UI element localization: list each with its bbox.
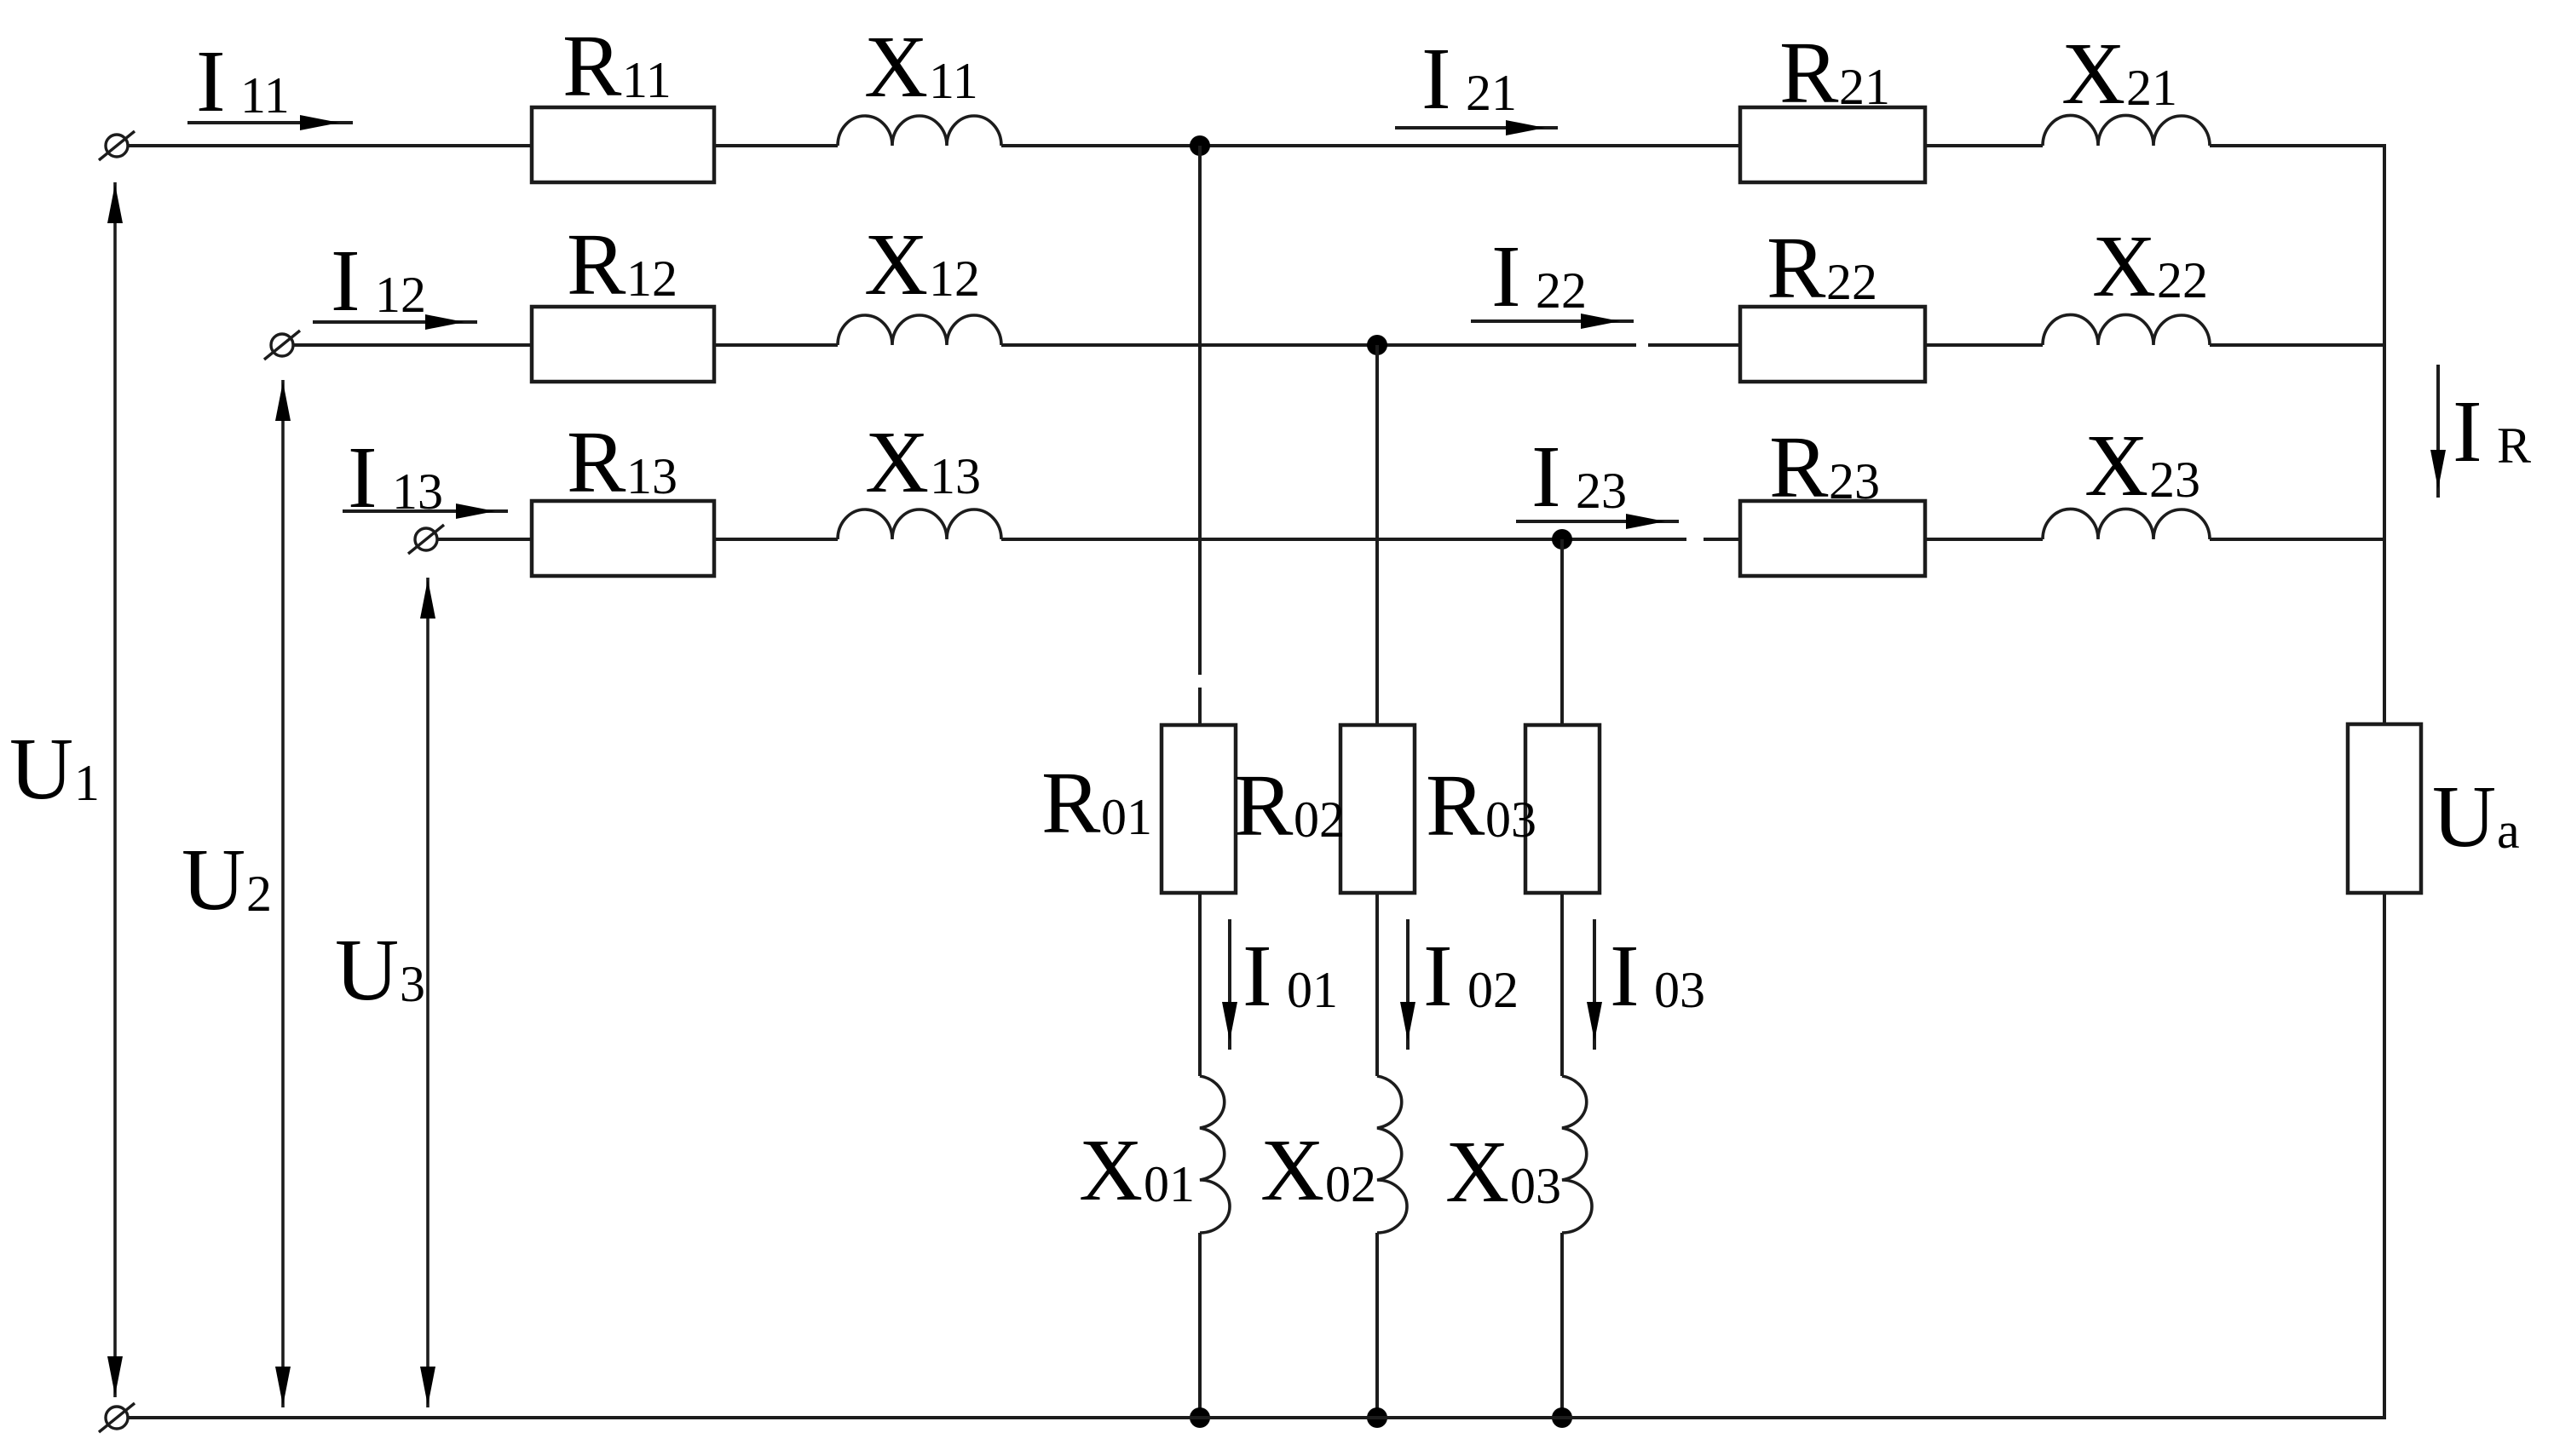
label I02 [1423, 927, 1519, 1025]
current arrow I21 [1395, 120, 1558, 135]
svg-text:3: 3 [400, 956, 425, 1012]
junction node branch1-bottom rail [1190, 1407, 1210, 1428]
svg-text:X: X [864, 18, 928, 116]
svg-text:X: X [2061, 25, 2125, 123]
current arrow I23 [1516, 514, 1679, 529]
wire row1 mid [714, 144, 838, 147]
junction node row1-branch1 [1190, 135, 1210, 156]
inductor X13 [838, 509, 1001, 539]
resistor R13 [532, 501, 714, 576]
label X01 [1079, 1121, 1195, 1219]
inductor X01 [1200, 1076, 1230, 1233]
svg-text:X: X [1445, 1123, 1509, 1221]
svg-text:I: I [1491, 227, 1521, 325]
label Ua [2432, 768, 2520, 866]
label I11 [196, 32, 290, 130]
svg-text:R: R [1234, 757, 1294, 855]
svg-text:21: 21 [1466, 65, 1517, 121]
svg-text:23: 23 [2149, 452, 2200, 508]
label I12 [331, 232, 426, 330]
label X02 [1260, 1121, 1376, 1219]
svg-text:03: 03 [1654, 962, 1705, 1018]
wire branch1 vertical lower [1198, 1233, 1202, 1418]
wire row1 right [1001, 144, 1740, 147]
wire row3 to coil X23 [1925, 538, 2043, 541]
svg-text:11: 11 [929, 53, 978, 109]
svg-text:I: I [1531, 428, 1561, 526]
label I21 [1421, 30, 1517, 128]
wire row3 left [437, 538, 532, 541]
svg-text:11: 11 [240, 67, 290, 124]
current arrow I01 [1222, 919, 1237, 1050]
wire right rail lower [2383, 893, 2386, 1419]
svg-text:02: 02 [1294, 791, 1345, 848]
svg-text:03: 03 [1485, 791, 1536, 848]
label I01 [1242, 927, 1338, 1025]
wire branch1 vertical upper [1198, 146, 1202, 725]
svg-text:R: R [567, 413, 626, 511]
terminal T2 (phase 2 input) [264, 331, 300, 360]
resistor R12 [532, 307, 714, 382]
wire row3 to right rail [2210, 538, 2386, 541]
label X22 [2092, 217, 2208, 315]
wire row2 left [293, 343, 532, 347]
label R03 [1426, 757, 1536, 855]
wire row2 to coil X22 [1925, 343, 2043, 347]
label X21 [2061, 25, 2177, 123]
wire row2 mid [714, 343, 838, 347]
resistor load Ua [2348, 724, 2421, 893]
svg-text:11: 11 [622, 52, 672, 108]
inductor X23 [2043, 509, 2210, 539]
wire right rail upper [2383, 144, 2386, 724]
svg-text:X: X [1079, 1121, 1143, 1219]
svg-text:12: 12 [375, 267, 426, 323]
resistor R21 [1740, 107, 1925, 182]
svg-text:23: 23 [1576, 463, 1627, 519]
current arrow I12 [313, 314, 477, 330]
svg-text:13: 13 [392, 463, 443, 520]
svg-text:R: R [1769, 418, 1829, 516]
svg-text:I: I [331, 232, 360, 330]
inductor X22 [2043, 314, 2210, 345]
wire branch2 below R02 [1375, 893, 1379, 1076]
svg-text:13: 13 [626, 448, 677, 504]
terminal bottom (common return) [99, 1403, 135, 1432]
current arrow I22 [1471, 314, 1634, 329]
svg-text:13: 13 [930, 448, 981, 504]
svg-text:X: X [865, 413, 929, 511]
junction node branch2-bottom rail [1367, 1407, 1387, 1428]
voltage arrow U3 (double-headed measure line) [420, 578, 435, 1407]
svg-text:22: 22 [2157, 252, 2208, 308]
label R02 [1234, 757, 1345, 855]
svg-text:I: I [1610, 927, 1640, 1025]
svg-text:X: X [864, 216, 928, 314]
svg-text:X: X [1260, 1121, 1324, 1219]
svg-text:I: I [348, 429, 378, 527]
label R12 [567, 216, 677, 314]
svg-text:02: 02 [1325, 1156, 1376, 1212]
resistor R01 [1162, 725, 1236, 893]
svg-text:R: R [2497, 417, 2531, 474]
svg-text:X: X [2092, 217, 2156, 315]
svg-text:U: U [335, 921, 399, 1019]
wire branch3 vertical upper [1560, 539, 1564, 725]
wire branch2 vertical lower [1375, 1233, 1379, 1418]
label R21 [1779, 24, 1890, 122]
label X12 [864, 216, 980, 314]
junction node row2-branch2 [1367, 335, 1387, 355]
svg-text:21: 21 [2126, 60, 2177, 116]
wire branch2 vertical upper [1375, 345, 1379, 725]
label R23 [1769, 418, 1880, 516]
voltage arrow U2 (double-headed measure line) [275, 380, 291, 1407]
inductor X02 [1377, 1076, 1407, 1233]
svg-text:I: I [2453, 383, 2482, 481]
label X11 [864, 18, 978, 116]
svg-text:R: R [1767, 219, 1826, 317]
svg-text:1: 1 [74, 755, 100, 811]
label R01 [1041, 754, 1152, 852]
svg-text:02: 02 [1467, 962, 1519, 1018]
resistor R02 [1340, 725, 1415, 893]
svg-text:I: I [1242, 927, 1272, 1025]
label I13 [348, 429, 443, 527]
junction node branch3-bottom rail [1552, 1407, 1572, 1428]
resistor R03 [1525, 725, 1600, 893]
label I23 [1531, 428, 1627, 526]
inductor X12 [838, 315, 1001, 345]
wire branch3 vertical lower [1560, 1233, 1564, 1418]
inductor X03 [1562, 1076, 1592, 1233]
wire row3 mid [714, 538, 838, 541]
svg-text:12: 12 [929, 250, 980, 307]
svg-text:I: I [196, 32, 226, 130]
label I22 [1491, 227, 1587, 325]
svg-text:R: R [562, 17, 622, 115]
label U3 [335, 921, 425, 1019]
inductor X11 [838, 116, 1001, 146]
wire branch1 below R01 [1198, 893, 1202, 1076]
terminal T3 (phase 3 input) [408, 525, 444, 554]
current arrow I03 [1587, 919, 1602, 1050]
svg-text:21: 21 [1839, 59, 1890, 115]
junction node row3-branch3 [1552, 529, 1572, 550]
current arrow I02 [1400, 919, 1415, 1050]
resistor R11 [532, 107, 714, 182]
label IR [2453, 383, 2531, 481]
svg-text:R: R [1779, 24, 1839, 122]
svg-text:03: 03 [1510, 1158, 1561, 1214]
svg-text:a: a [2497, 803, 2520, 859]
label R11 [562, 17, 672, 115]
wire branch3 below R03 [1560, 893, 1564, 1076]
svg-text:R: R [567, 216, 626, 314]
svg-text:X: X [2084, 417, 2148, 515]
label X13 [865, 413, 981, 511]
svg-text:I: I [1423, 927, 1453, 1025]
wire row1 left [128, 144, 532, 147]
resistor R22 [1740, 307, 1925, 382]
wire row2 right [1001, 343, 1740, 347]
wire row3 right [1001, 538, 1740, 541]
wire bottom rail [128, 1416, 2386, 1419]
svg-text:01: 01 [1287, 962, 1338, 1018]
svg-text:R: R [1041, 754, 1101, 852]
resistor R23 [1740, 501, 1925, 576]
wire row1 to coil X21 [1925, 144, 2043, 147]
wire row2 to right rail [2210, 343, 2386, 347]
label R22 [1767, 219, 1877, 317]
svg-text:U: U [2432, 768, 2496, 866]
svg-text:U: U [182, 831, 245, 929]
svg-text:R: R [1426, 757, 1485, 855]
voltage arrow U1 (double-headed measure line) [107, 182, 123, 1397]
svg-text:22: 22 [1826, 254, 1877, 310]
current arrow I13 [343, 504, 508, 519]
label X03 [1445, 1123, 1561, 1221]
svg-text:22: 22 [1536, 262, 1587, 319]
terminal T1 (phase 1 input) [99, 131, 135, 160]
current arrow I11 [187, 115, 353, 130]
svg-text:01: 01 [1144, 1156, 1195, 1212]
svg-text:U: U [9, 720, 73, 818]
wire row1 to right rail [2210, 144, 2386, 147]
svg-text:I: I [1421, 30, 1451, 128]
label X23 [2084, 417, 2200, 515]
label I03 [1610, 927, 1705, 1025]
current arrow IR [2430, 365, 2446, 498]
label R13 [567, 413, 677, 511]
svg-text:12: 12 [626, 250, 677, 307]
label U2 [182, 831, 272, 929]
svg-text:23: 23 [1829, 453, 1880, 509]
svg-text:2: 2 [246, 866, 272, 922]
label U1 [9, 720, 100, 818]
inductor X21 [2043, 115, 2210, 146]
svg-text:01: 01 [1101, 789, 1152, 845]
